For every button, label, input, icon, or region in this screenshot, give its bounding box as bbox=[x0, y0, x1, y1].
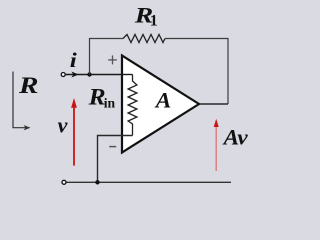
wire: input from terminal to op-amp non-inverting input bbox=[66, 74, 133, 76]
wire: op-amp output stub bbox=[199, 103, 228, 105]
red arrow Av (output voltage) bbox=[215, 126, 217, 172]
svg-text:v: v bbox=[58, 112, 68, 137]
wire: from junction up to feedback rail bbox=[90, 39, 124, 75]
node: junction dot at non-inverting input bbox=[87, 72, 91, 76]
R measurement indicator (left bracket with arrow) bbox=[13, 72, 26, 128]
svg-text:Av: Av bbox=[222, 125, 249, 150]
bottom terminal (open circle) bbox=[62, 180, 66, 184]
wire: from R1 to output node (right feedback rail) bbox=[165, 39, 228, 105]
minus sign (inverting input marker) bbox=[109, 146, 116, 148]
svg-text:R: R bbox=[18, 73, 39, 98]
resistor Rin (vertical zigzag inside op-amp) bbox=[128, 75, 137, 136]
red arrow v (input voltage) bbox=[73, 106, 75, 166]
svg-text:i: i bbox=[70, 48, 77, 72]
svg-text:in: in bbox=[104, 96, 116, 111]
bottom rail wire bbox=[66, 181, 231, 183]
node: junction dot on bottom rail bbox=[95, 180, 99, 184]
svg-text:A: A bbox=[154, 87, 172, 112]
resistor R1 (zigzag) bbox=[123, 35, 165, 43]
wire: stub inside op-amp to Rin top bbox=[121, 74, 133, 76]
current arrowhead i on input wire bbox=[71, 72, 78, 78]
input terminal (open circle, top left) bbox=[61, 73, 65, 77]
wire: inverting input from Rin bottom, left out of op-amp then down bbox=[98, 136, 133, 183]
svg-text:1: 1 bbox=[150, 13, 158, 30]
plus sign (non-inverting input marker) bbox=[108, 55, 117, 64]
op-amp U1 triangle bbox=[122, 56, 199, 153]
